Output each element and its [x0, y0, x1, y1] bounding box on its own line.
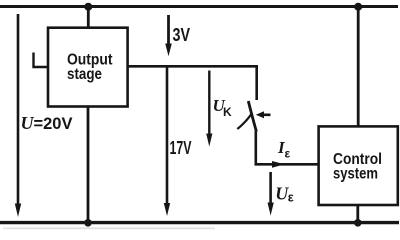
node junction bottom-right [354, 219, 362, 227]
label U=20V [21, 113, 74, 133]
wire control-system bottom drop [356, 205, 359, 223]
block U2 Control system [319, 126, 398, 205]
wire control-system top feed [357, 7, 360, 127]
voltage arrow 17V [164, 66, 170, 216]
wire top supply bus [0, 5, 398, 8]
voltage arrow UE [268, 172, 274, 216]
node junction top-left [84, 3, 92, 11]
wire input L-stub [34, 53, 49, 68]
voltage arrow UK [206, 71, 212, 147]
wire left branch (source) [17, 14, 20, 206]
node junction top-right [354, 3, 362, 11]
node junction bottom-left [84, 219, 92, 227]
wire main horizontal 17V rail with corner down to switch [128, 66, 257, 100]
svg-text:K: K [223, 105, 232, 119]
svg-text:ε: ε [288, 191, 294, 205]
block U1 Output stage [48, 28, 128, 107]
wire switch lower segment to I_E corner [256, 131, 319, 165]
svg-text:17V: 17V [170, 138, 192, 158]
svg-text:ε: ε [285, 146, 291, 160]
wire output-stage top feed [87, 7, 90, 29]
svg-text:3V: 3V [173, 25, 191, 45]
svg-text:stage: stage [67, 66, 102, 83]
voltage arrow 3V [165, 15, 172, 56]
voltage arrow U=20V [15, 204, 21, 218]
svg-text:U: U [21, 113, 35, 133]
wire output-stage bottom drop [87, 105, 90, 223]
label UK [213, 96, 233, 119]
label UE [275, 184, 294, 205]
label IE [277, 138, 291, 161]
switch S actuation arrow [256, 111, 271, 118]
svg-text:=20V: =20V [34, 114, 74, 133]
wire bottom scan shadow [3, 227, 215, 229]
wire bottom return bus [0, 221, 399, 224]
switch S actuation arc [237, 114, 252, 130]
current arrow IE on wire [272, 161, 285, 168]
switch S blade [248, 101, 256, 132]
svg-text:system: system [333, 166, 378, 183]
